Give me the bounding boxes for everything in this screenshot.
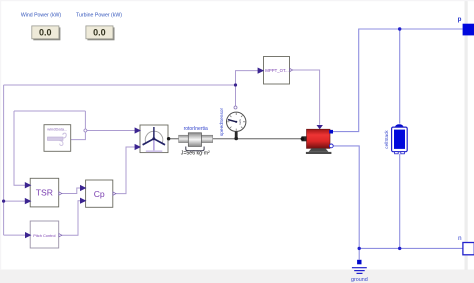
- svg-text:windData...: windData...: [47, 126, 67, 131]
- speedSensor gauge: [227, 112, 246, 131]
- svg-text:rotorInertia: rotorInertia: [184, 126, 208, 132]
- block MPPT: [264, 57, 290, 85]
- TSR output port: [59, 192, 62, 195]
- ground pin square: [357, 260, 361, 265]
- battery foot left: [395, 152, 399, 154]
- block pitchControl: [30, 221, 59, 248]
- generator signal arrow: [317, 125, 323, 129]
- speedSensor junction dot: [234, 137, 238, 141]
- wire ground branch: [358, 248, 360, 259]
- block TSR: [30, 178, 59, 207]
- wire TSR out to Cp in1: [61, 188, 81, 194]
- wire windData output stub: [71, 111, 86, 140]
- windData wind icon: [48, 133, 67, 145]
- svg-text:J=5e6 kg·m²: J=5e6 kg·m²: [181, 151, 210, 157]
- generator body: [307, 129, 331, 148]
- wire MPPT out to generator: [292, 70, 319, 125]
- wire speed-signal trunk horizontal: [4, 84, 236, 86]
- display box windPower: [32, 26, 59, 39]
- wire Cp out to turbine in2: [115, 147, 135, 194]
- turbine tower: [153, 139, 155, 151]
- generator flange dot: [301, 137, 305, 141]
- node wind split circle: [84, 129, 87, 132]
- wire wind-signal horizontal: [14, 110, 85, 112]
- block Cp: [86, 180, 113, 207]
- display box turbinePower shadow: [87, 27, 114, 40]
- turbine blade left: [142, 138, 154, 146]
- wire speed to TSR in2: [4, 200, 26, 202]
- generator pin n: [329, 144, 333, 148]
- wire electrical p net: [333, 29, 463, 132]
- battery foot right: [401, 152, 405, 154]
- junction dot speed trunk: [234, 83, 237, 86]
- svg-text:Turbine Power (kW): Turbine Power (kW): [76, 13, 122, 19]
- turbine blade right: [154, 138, 166, 146]
- pin n: [463, 243, 474, 255]
- rotorInertia right shaft: [202, 135, 213, 142]
- Cp output port: [113, 192, 116, 195]
- wire speed to pitch control: [4, 234, 26, 236]
- Cp input arrow 2: [80, 198, 86, 204]
- battery cell fill: [394, 130, 405, 149]
- pitchControl input arrow: [25, 232, 31, 238]
- generator base trapezoid: [309, 148, 329, 152]
- rotorInertia bracket: [186, 147, 204, 151]
- bottom gray strip: [0, 270, 474, 283]
- block windTurbine: [140, 125, 168, 153]
- rotorInertia body: [188, 133, 201, 147]
- svg-text:p: p: [458, 16, 462, 23]
- generator base bar: [306, 152, 332, 154]
- turbine swept arc: [145, 131, 163, 143]
- svg-text:TSR: TSR: [36, 188, 53, 198]
- wire speed-signal trunk vertical: [3, 85, 5, 235]
- turbine base: [146, 150, 163, 152]
- wire sensor to MPPT: [236, 71, 259, 107]
- svg-text:Wind Power (kW): Wind Power (kW): [21, 13, 62, 19]
- generator shaft stub: [302, 136, 307, 141]
- svg-text:speedSensor: speedSensor: [219, 107, 225, 136]
- junction dot speed to TSR: [2, 200, 5, 203]
- display box windPower shadow: [33, 27, 60, 40]
- svg-text:rad/s: rad/s: [238, 118, 242, 124]
- svg-text:cellStack: cellStack: [384, 130, 389, 149]
- svg-text:n: n: [458, 235, 462, 242]
- right faint band: [465, 0, 468, 270]
- turbine hub: [152, 137, 155, 140]
- svg-text:Cp: Cp: [94, 189, 105, 199]
- wire electrical n net: [333, 146, 463, 249]
- wire wind node to turbine in1: [85, 130, 135, 132]
- top faint band: [0, 0, 474, 1]
- junction dot n net battery: [398, 247, 401, 250]
- junction dot p net: [398, 27, 401, 30]
- svg-text:Pitch Control: Pitch Control: [33, 233, 55, 238]
- battery top cap: [395, 124, 404, 127]
- pitchControl output port: [59, 234, 62, 237]
- svg-text:MPPT_OT...: MPPT_OT...: [265, 68, 288, 73]
- svg-text:0.0: 0.0: [39, 28, 52, 38]
- block windData: [44, 125, 71, 152]
- left faint band: [0, 0, 1, 270]
- display box turbinePower: [86, 26, 113, 39]
- mechanical shaft line: [169, 138, 302, 140]
- turbine input arrow 2: [135, 144, 141, 150]
- MPPT output port: [290, 68, 293, 71]
- wire battery top branch: [399, 29, 401, 124]
- turbine blade up: [153, 127, 155, 139]
- speedSensor output port: [234, 106, 237, 109]
- generator pin p: [329, 130, 333, 134]
- battery cellStack: [384, 124, 407, 154]
- svg-text:0.0: 0.0: [93, 28, 106, 38]
- Cp input arrow 1: [80, 185, 86, 191]
- turbine flange node: [167, 137, 170, 140]
- gauge needle: [228, 120, 236, 122]
- svg-text:ground: ground: [351, 277, 368, 283]
- TSR input arrow 2: [25, 198, 32, 204]
- ground symbol: [352, 268, 367, 274]
- wire pitch out to Cp in2: [61, 201, 81, 236]
- pin p: [463, 24, 474, 36]
- wire battery bottom branch: [399, 154, 401, 249]
- battery outer case: [392, 127, 408, 152]
- MPPT input arrow: [258, 68, 265, 74]
- turbine input arrow 1: [135, 127, 141, 133]
- speedSensor flange stem: [235, 132, 238, 139]
- TSR input arrow 1: [25, 182, 32, 188]
- wire wind-signal vertical: [14, 111, 25, 185]
- junction dot n net left: [358, 247, 361, 250]
- rotorInertia left shaft: [179, 135, 189, 142]
